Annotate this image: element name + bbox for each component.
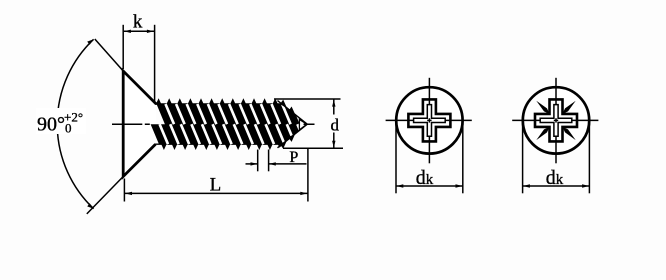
dimension dk (head diameter) for Pozidriv view <box>522 121 524 194</box>
svg-text:L: L <box>210 174 222 195</box>
screw head (countersunk) outline <box>123 71 156 177</box>
dimension k (head height) with extension lines and arrows <box>122 25 124 69</box>
dimension P (thread pitch) <box>257 150 259 172</box>
dimension L (overall length) <box>123 179 125 202</box>
front view: Phillips recess head <box>396 87 462 153</box>
svg-text:d: d <box>331 115 340 134</box>
front view: Pozidriv recess head <box>523 87 589 153</box>
screw axis centerline <box>112 123 315 125</box>
svg-text:P: P <box>289 149 298 166</box>
svg-text:k: k <box>133 11 143 32</box>
dimension 90deg +2/0 cone angle with arc and extension lines <box>95 39 123 71</box>
dimension dk (head diameter) for Phillips view <box>395 121 397 194</box>
svg-text:90°: 90° <box>37 114 65 136</box>
dimension d (thread major diameter) <box>274 98 341 100</box>
svg-text:0: 0 <box>65 121 72 136</box>
